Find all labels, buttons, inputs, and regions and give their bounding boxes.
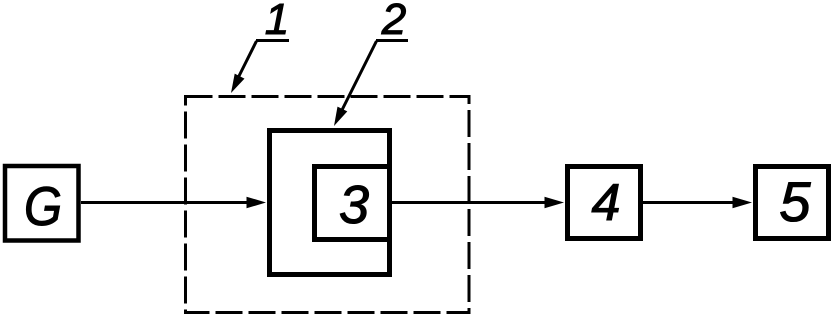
block G (generator) bbox=[5, 166, 79, 241]
wire block 4 to block 5 bbox=[643, 201, 736, 204]
underline of numeral 1 bbox=[256, 39, 289, 42]
leader arrowhead 2 bbox=[334, 107, 347, 126]
wire block 3 to block 4 bbox=[392, 201, 548, 204]
leader arrowhead 1 bbox=[231, 74, 245, 93]
svg-text:2: 2 bbox=[381, 0, 406, 44]
svg-text:1: 1 bbox=[265, 0, 289, 44]
svg-text:3: 3 bbox=[339, 175, 369, 235]
arrowhead into block 2 bbox=[247, 197, 267, 209]
underline of numeral 2 bbox=[376, 39, 408, 42]
svg-text:4: 4 bbox=[592, 174, 621, 232]
block 3 (inner, shares right edge with block 2) bbox=[315, 167, 390, 240]
block 2 (outer) bbox=[270, 131, 390, 275]
leader line 2 bbox=[341, 41, 377, 112]
svg-text:5: 5 bbox=[779, 170, 811, 233]
svg-text:G: G bbox=[24, 176, 62, 237]
block 4 bbox=[568, 167, 641, 239]
arrowhead into block 4 bbox=[545, 197, 565, 209]
leader line 1 bbox=[237, 41, 257, 80]
dashed enclosure 1 bbox=[186, 97, 470, 313]
wire G to block 2 bbox=[81, 201, 250, 204]
arrowhead into block 5 bbox=[733, 197, 753, 209]
block 5 bbox=[756, 167, 829, 239]
